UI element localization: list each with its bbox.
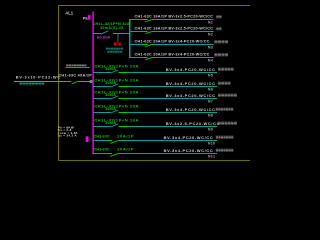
main breaker QF CH1-63C 40A/2P (67, 81, 71, 83)
branch circuit N10: wire (93, 140, 108, 141)
svg-text:N2: N2 (208, 32, 213, 36)
svg-text:30mA: 30mA (105, 67, 116, 71)
enclosure AL1 box border (59, 6, 251, 161)
load name N8 (216, 108, 218, 111)
load name N4 (214, 53, 217, 56)
svg-text:CH1-63C 40A/2P: CH1-63C 40A/2P (58, 74, 92, 78)
branch circuit N1: wire (129, 19, 144, 20)
svg-text:CH1-63C: CH1-63C (94, 134, 110, 138)
load calculation note Pe/Kx/cos/Ijs (58, 126, 78, 138)
svg-text:CH1-63C 16A/1P BV-3x2.5-PC20-W: CH1-63C 16A/1P BV-3x2.5-PC20-WC/CC (135, 14, 214, 18)
svg-text:BV-3x4-PC20-WC/CC: BV-3x4-PC20-WC/CC (166, 67, 216, 72)
load name N10 (216, 136, 218, 139)
svg-text:BV-3x2.5-PC20-WC/CC: BV-3x2.5-PC20-WC/CC (166, 121, 220, 126)
branch breaker N1 (144, 19, 148, 20)
svg-text:CH1-63C 20A/1P BV-3x4-PC20-WC/: CH1-63C 20A/1P BV-3x4-PC20-WC/CC (135, 52, 210, 56)
load name N5 (218, 68, 221, 71)
svg-text:30mA: 30mA (105, 107, 116, 111)
svg-text:30mA: 30mA (105, 93, 116, 97)
svg-text:CH1L-32/1P+N 20A: CH1L-32/1P+N 20A (94, 77, 139, 82)
load name N9 (218, 122, 221, 125)
svg-text:CH1L-32/1P+N 20A: CH1L-32/1P+N 20A (94, 103, 139, 108)
load name N11 (216, 149, 218, 152)
SPD note (teal chinese 2 lines) (106, 48, 108, 50)
branch breaker N5 (RCBO) (111, 70, 118, 73)
N terminal bar (86, 136, 89, 142)
branch breaker N7 (RCBO) (111, 96, 118, 99)
branch breaker N2 (144, 31, 148, 32)
load name N2 (216, 27, 218, 30)
svg-text:CH1L-32/1P+N 16A: CH1L-32/1P+N 16A (94, 117, 139, 122)
node: feeder-busbar junction (90, 80, 92, 82)
svg-text:30mA: 30mA (105, 121, 116, 125)
svg-text:N3: N3 (208, 45, 213, 49)
svg-text:BV-3x4-PC20-WC/CC: BV-3x4-PC20-WC/CC (166, 107, 216, 112)
svg-text:CH1-63C: CH1-63C (94, 147, 110, 151)
load name N1 (216, 15, 218, 18)
svg-text:N10: N10 (208, 141, 215, 145)
branch circuit N9: wire (93, 126, 111, 127)
svg-text:N1: N1 (208, 20, 213, 24)
load name N6 (218, 82, 221, 85)
svg-text:CH1-63C 20A/1P BV-3x4-PC20-WC/: CH1-63C 20A/1P BV-3x4-PC20-WC/CC (135, 39, 210, 43)
svg-text:20A/1P: 20A/1P (117, 133, 134, 138)
svg-text:Ian:8mA: Ian:8mA (97, 36, 111, 40)
svg-text:N5: N5 (208, 73, 213, 77)
branch breaker N9 (RCBO) (111, 124, 118, 127)
incoming feeder wire (14, 81, 67, 82)
branch breaker N8 (RCBO) (111, 110, 118, 113)
branch breaker N4 (144, 57, 148, 58)
svg-text:CH1L-32/1P+N 20A: CH1L-32/1P+N 20A (94, 63, 139, 68)
svg-text:N11: N11 (208, 154, 215, 158)
branch breaker N6 (RCBO) (111, 84, 118, 87)
svg-text:BV-3x4-PC20-WC/CC: BV-3x4-PC20-WC/CC (164, 135, 214, 140)
branch circuit N8: wire (93, 112, 111, 113)
svg-text:N7: N7 (208, 99, 213, 103)
branch circuit N3: wire (129, 44, 144, 45)
branch breaker N10 (108, 140, 112, 141)
busbar L1 (magenta vertical) (92, 11, 94, 154)
svg-text:CH1-63C 16A/1P BV-3x2.5-PC20-W: CH1-63C 16A/1P BV-3x2.5-PC20-WC/CC (135, 26, 214, 30)
branch circuit N7: wire (93, 98, 111, 99)
svg-text:30mA(X)-45: 30mA(X)-45 (100, 26, 123, 30)
branch breaker N11 (108, 153, 112, 154)
svg-text:N4: N4 (208, 58, 213, 62)
svg-text:20A/1P: 20A/1P (117, 146, 134, 151)
branch circuit N2: wire (129, 31, 144, 32)
SPD surge protector (red) (114, 42, 121, 46)
svg-text:N9: N9 (208, 127, 213, 131)
svg-text:AL1: AL1 (65, 10, 74, 15)
svg-text:BV-3x4-PC20-WC/CC: BV-3x4-PC20-WC/CC (164, 148, 214, 153)
branch circuit N5: wire (93, 72, 111, 73)
svg-text:N6: N6 (208, 87, 213, 91)
load name N3 (214, 40, 217, 43)
svg-text:BV-3x4-PC20-WC/CC: BV-3x4-PC20-WC/CC (166, 81, 216, 86)
svg-text:BV-3x10-PC32-WC: BV-3x10-PC32-WC (16, 75, 61, 79)
svg-text:CH1L-32/1P+N 20A: CH1L-32/1P+N 20A (94, 89, 139, 94)
incoming source note (cyan chinese) (19, 82, 22, 84)
branch circuit N11: wire (93, 153, 108, 154)
load name N7 (218, 94, 221, 97)
sub-busbar (cyan vertical) (129, 19, 130, 58)
branch circuit N4: wire (129, 57, 144, 58)
branch breaker N3 (144, 44, 148, 45)
branch circuit N6: wire (93, 86, 111, 87)
enclosure grounding note (grey chinese, underlined) (66, 64, 68, 66)
group RCD feed wire (93, 33, 101, 34)
svg-text:N8: N8 (208, 113, 213, 117)
SPD stem wire (117, 34, 120, 42)
svg-text:/: / (104, 50, 105, 54)
svg-text:PE: PE (83, 17, 89, 21)
svg-text:BV-3x4-PC20-WC/CC: BV-3x4-PC20-WC/CC (166, 93, 216, 98)
svg-text:30mA: 30mA (105, 81, 116, 85)
svg-text:Ijs = 34.3 A: Ijs = 34.3 A (58, 134, 78, 138)
